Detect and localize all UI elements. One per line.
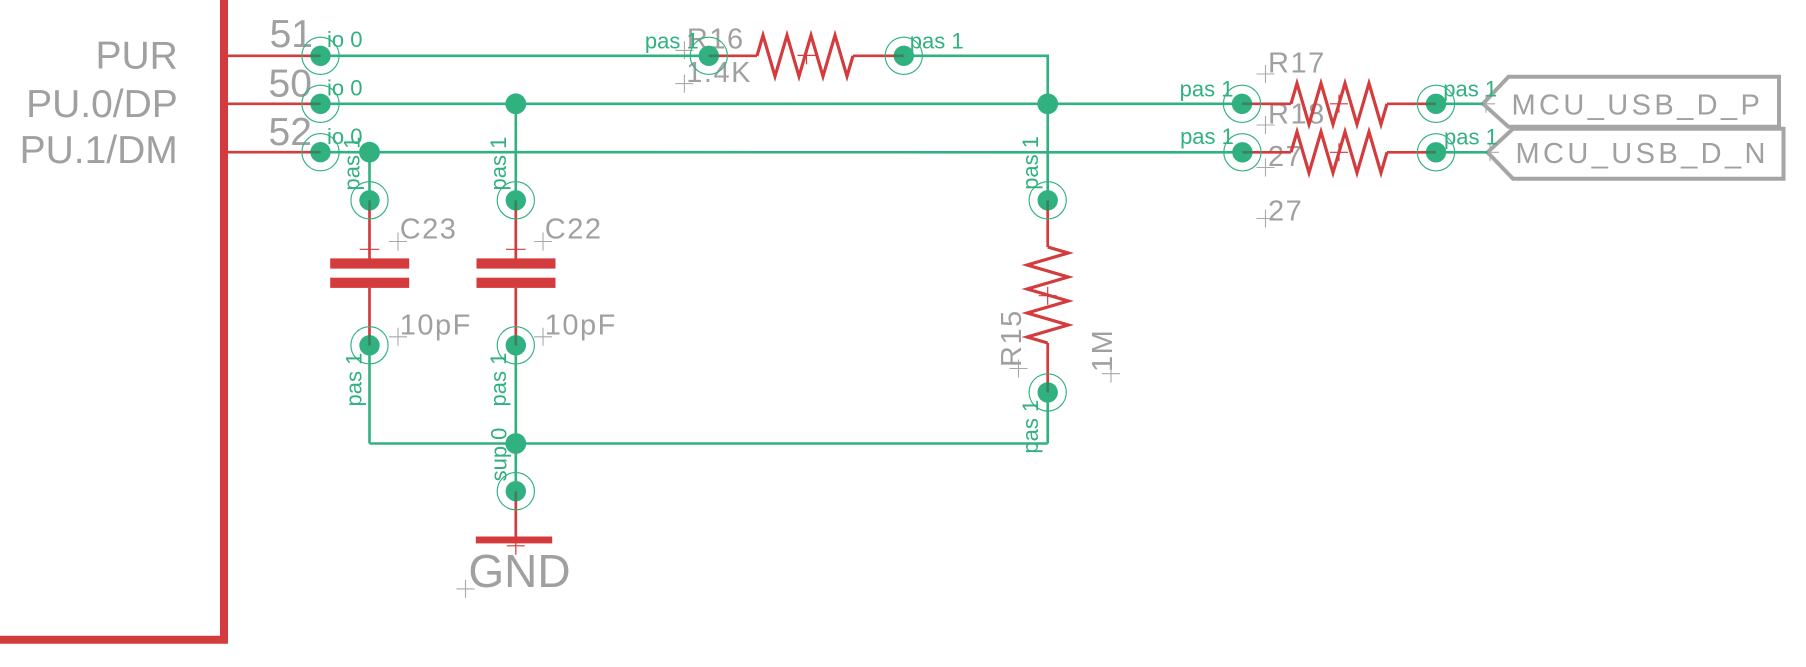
svg-text:pas 1: pas 1	[486, 353, 511, 407]
capacitor C22 body (10pF)	[477, 200, 556, 345]
svg-text:pas 1: pas 1	[342, 353, 367, 407]
origin cross GND symbol	[507, 537, 525, 555]
svg-text:27: 27	[1268, 196, 1303, 228]
wire: R15 bottom to GND bus	[1046, 392, 1049, 443]
IC U1 pin 52 (PU.1/DM) lead	[224, 151, 311, 154]
capacitor C23 value 10pF	[400, 310, 472, 342]
pin number 50	[269, 63, 312, 106]
IC U1 boundary (left symbol outline)	[0, 0, 224, 640]
resistor R18 body (27, horizontal zigzag)	[1242, 132, 1436, 173]
capacitor C22 name label	[545, 214, 603, 246]
svg-text:MCU_USB_D_N: MCU_USB_D_N	[1516, 138, 1769, 170]
pad R15 pin 1 (bottom)	[1029, 374, 1066, 411]
resistor R15 value 1M (rotated)	[1087, 329, 1119, 372]
pad C23 pin 1 (top)	[351, 182, 388, 219]
svg-text:pas 1: pas 1	[340, 137, 365, 191]
pin label pas 1 (C23 bottom, rotated)	[342, 353, 367, 407]
pad R16 pin 2	[885, 37, 922, 74]
net flag MCU_USB_D_P	[1483, 77, 1779, 127]
resistor R16 name label	[687, 24, 745, 56]
svg-text:pas 1: pas 1	[1180, 124, 1234, 149]
text anchor cross R18	[1257, 116, 1275, 134]
pad pin 52	[302, 134, 339, 171]
GND net label text	[468, 545, 570, 597]
svg-text:pas 1: pas 1	[1444, 124, 1498, 149]
svg-text:51: 51	[270, 13, 313, 56]
text anchor cross R15	[1010, 360, 1028, 378]
pin number 51	[270, 13, 313, 56]
pin label pas 1 (C22 bottom, rotated)	[486, 353, 511, 407]
text anchor cross R16	[675, 41, 693, 59]
capacitor C23 name label	[400, 214, 458, 246]
wire net PUR: pin 51 to R16	[321, 54, 709, 57]
junction on DP at C22 column	[505, 93, 526, 114]
wire net PU.1/DM: pin 52 to R18	[321, 151, 1243, 154]
pad R15 pin 2 (top)	[1029, 182, 1066, 219]
svg-text:pas 1: pas 1	[1018, 136, 1043, 190]
pin label pas 1 (R16 pin 1)	[645, 29, 699, 54]
text anchor cross flag MCU_USB_D_P	[1477, 95, 1495, 113]
pad R16 pin 1	[690, 37, 727, 74]
pin label pas 1 (R16 pin 2)	[910, 28, 964, 53]
origin cross C22	[506, 240, 526, 260]
wire net D+: R17 to flag MCU_USB_D_P	[1436, 103, 1483, 106]
wire: C22 bottom through bus to GND supply pad	[514, 345, 517, 491]
pad C23 pin 2 (bottom)	[351, 327, 388, 364]
svg-text:pas 1: pas 1	[1018, 400, 1043, 454]
pin label pas 1 (C22 top, rotated)	[486, 137, 511, 191]
text anchor cross 10pF (C23)	[389, 328, 407, 346]
svg-text:1M: 1M	[1087, 329, 1119, 372]
ground symbol GND	[476, 491, 552, 543]
origin cross R17	[1330, 95, 1348, 113]
resistor R17 name label	[1268, 48, 1326, 80]
junction on DM at C23 column	[359, 142, 380, 163]
resistor R15 body (1M, vertical zigzag)	[1027, 200, 1068, 392]
capacitor C23 body (10pF)	[330, 200, 409, 345]
pin label io 0 (pin 51)	[327, 27, 362, 52]
resistor R18 value 27	[1268, 196, 1303, 228]
resistor R16 value 1.4K	[686, 57, 752, 89]
svg-text:10pF: 10pF	[545, 310, 617, 342]
svg-text:PUR: PUR	[95, 35, 177, 78]
pad GND supply pin	[497, 473, 534, 510]
svg-text:R15: R15	[996, 309, 1028, 367]
svg-text:sup 0: sup 0	[486, 428, 511, 482]
resistor R15 name label (rotated)	[996, 309, 1028, 367]
svg-text:R17: R17	[1268, 48, 1326, 80]
pin label pas 1 (R15 top, rotated)	[1018, 136, 1043, 190]
capacitor C22 value 10pF	[545, 310, 617, 342]
text anchor cross R17	[1257, 65, 1275, 83]
pad C22 pin 1 (top)	[497, 182, 534, 219]
svg-text:pas 1: pas 1	[1443, 77, 1497, 102]
svg-text:PU.0/DP: PU.0/DP	[26, 83, 178, 126]
svg-text:GND: GND	[468, 545, 570, 597]
IC U1 pin 50 (PU.0/DP) lead	[224, 102, 311, 105]
svg-text:27: 27	[1268, 141, 1303, 173]
origin cross R18	[1330, 143, 1348, 161]
pin label io 0 (pin 50)	[327, 76, 362, 101]
pad R18 pin 2	[1417, 134, 1454, 171]
svg-text:pas 1: pas 1	[910, 28, 964, 53]
pad pin 51	[302, 37, 339, 74]
text anchor cross 1M	[1102, 365, 1120, 383]
pad R17 pin 1	[1223, 85, 1260, 122]
pin label pas 1 (C23 top, rotated)	[340, 137, 365, 191]
resistor R17 body (27, horizontal zigzag)	[1242, 83, 1436, 124]
text anchor cross flag MCU_USB_D_N	[1481, 143, 1499, 161]
wire net PU.0/DP: pin 50 to R17	[321, 103, 1243, 106]
pin label io 0 (pin 52)	[327, 124, 362, 149]
text anchor cross 1.4K	[675, 75, 693, 93]
net flag MCU_USB_D_N	[1488, 129, 1784, 179]
wire: junction DP down to R15 top	[1046, 104, 1049, 201]
resistor R17 value 27	[1268, 141, 1303, 173]
text anchor cross GND	[457, 580, 475, 598]
pad pin 50	[302, 85, 339, 122]
junction on DP at R15 column	[1037, 93, 1058, 114]
svg-text:pas 1: pas 1	[645, 29, 699, 54]
svg-text:52: 52	[269, 111, 312, 154]
wire: GND bus horizontal	[370, 442, 1048, 445]
wire net D-: R18 to flag MCU_USB_D_N	[1436, 151, 1488, 154]
svg-text:MCU_USB_D_P: MCU_USB_D_P	[1512, 89, 1764, 121]
pin label pas 1 (R15 bottom, rotated)	[1018, 400, 1043, 454]
svg-text:pas 1: pas 1	[1180, 76, 1234, 101]
pin label sup 0 (GND supply, rotated)	[486, 428, 511, 482]
resistor R18 name label	[1268, 99, 1326, 131]
wire: C23 bottom to GND bus	[368, 345, 371, 443]
wire: junction on DP down to C22	[514, 104, 517, 201]
text anchor cross 27 (R17)	[1257, 159, 1275, 177]
svg-text:C23: C23	[400, 214, 458, 246]
pin label pas 1 (R17 pin 2)	[1443, 77, 1497, 102]
origin cross R16	[798, 46, 816, 64]
text anchor cross 10pF (C22)	[534, 328, 552, 346]
pin label pas 1 (R18 pin 1)	[1180, 124, 1234, 149]
pin name PUR	[95, 35, 177, 78]
pad R17 pin 2	[1417, 85, 1454, 122]
wire net USB D+ pullup: R16 right to corner	[904, 56, 1048, 104]
svg-text:pas 1: pas 1	[486, 137, 511, 191]
junction on GND bus at C22 column	[505, 433, 526, 454]
svg-text:PU.1/DM: PU.1/DM	[20, 129, 178, 172]
pin name PU.1/DM	[20, 129, 178, 172]
pin number 52	[269, 111, 312, 154]
origin cross C23	[360, 240, 380, 260]
svg-text:10pF: 10pF	[400, 310, 472, 342]
svg-text:50: 50	[269, 63, 312, 106]
origin cross R15	[1039, 287, 1057, 305]
svg-text:C22: C22	[545, 214, 603, 246]
text anchor cross C23	[389, 233, 407, 251]
wire: junction on DM down to C23	[368, 152, 371, 200]
svg-text:io 0: io 0	[327, 76, 362, 101]
resistor R16 body (1.4K, horizontal zigzag)	[709, 35, 904, 76]
pin name PU.0/DP	[26, 83, 178, 126]
text anchor cross 27 (R18)	[1257, 210, 1275, 228]
pin label pas 1 (R18 pin 2)	[1444, 124, 1498, 149]
pin label pas 1 (R17 pin 1)	[1180, 76, 1234, 101]
svg-text:io 0: io 0	[327, 27, 362, 52]
pad R18 pin 1	[1224, 134, 1261, 171]
text anchor cross C22	[534, 233, 552, 251]
svg-text:1.4K: 1.4K	[686, 57, 752, 89]
pad C22 pin 2 (bottom)	[497, 327, 534, 364]
IC U1 pin 51 (PUR) lead	[224, 54, 311, 57]
